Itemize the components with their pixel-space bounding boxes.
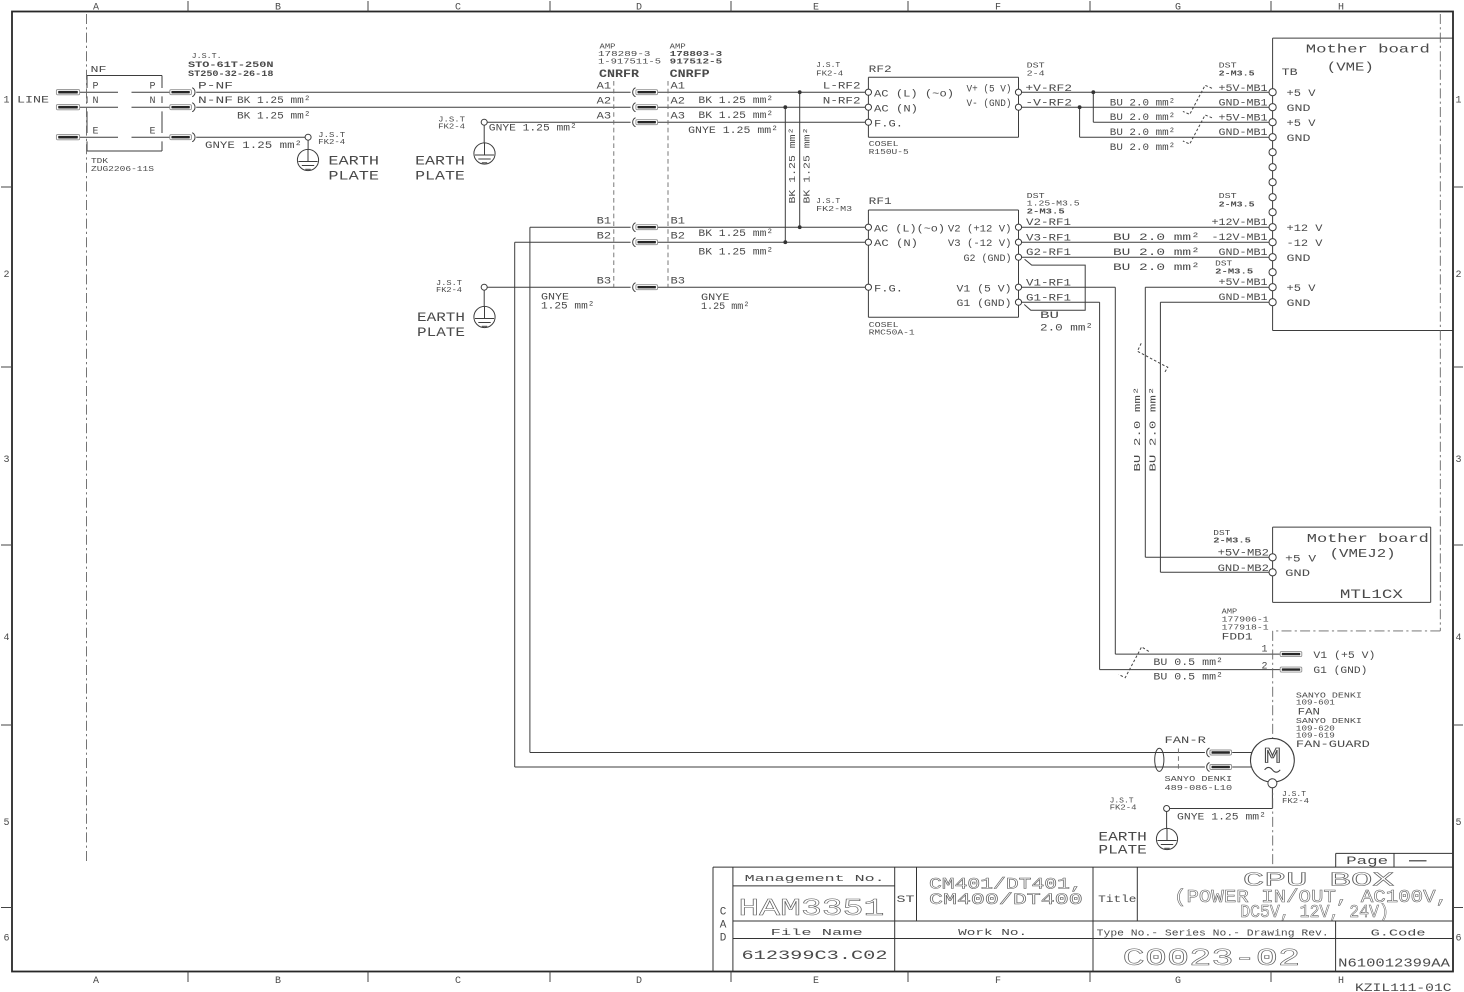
svg-text:2-M3.5: 2-M3.5 — [1215, 268, 1254, 276]
svg-text:C: C — [455, 976, 461, 987]
svg-text:B2: B2 — [597, 231, 612, 242]
svg-text:4: 4 — [3, 633, 9, 644]
svg-text:BU 2.0 mm²: BU 2.0 mm² — [1110, 113, 1175, 124]
svg-text:F: F — [995, 2, 1001, 13]
svg-text:P: P — [93, 81, 99, 92]
svg-text:5: 5 — [1455, 818, 1461, 829]
svg-text:GND-MB1: GND-MB1 — [1219, 293, 1268, 304]
svg-text:J.S.T: J.S.T — [816, 62, 840, 70]
svg-text:BK 1.25 mm²: BK 1.25 mm² — [237, 96, 311, 107]
svg-text:AC (N): AC (N) — [874, 238, 918, 250]
svg-text:612399C3.C02: 612399C3.C02 — [742, 949, 888, 963]
svg-text:BK 1.25 mm²: BK 1.25 mm² — [698, 247, 773, 258]
svg-text:P-NF: P-NF — [198, 81, 233, 92]
svg-text:AC (L)(~o): AC (L)(~o) — [874, 223, 945, 235]
svg-text:917512-5: 917512-5 — [670, 59, 723, 67]
svg-text:N610012399AA: N610012399AA — [1338, 957, 1451, 971]
svg-text:N: N — [93, 96, 99, 107]
svg-text:2-4: 2-4 — [1027, 70, 1046, 78]
svg-text:3: 3 — [1455, 455, 1461, 466]
svg-text:2-M3.5: 2-M3.5 — [1219, 201, 1256, 209]
svg-text:DST: DST — [1219, 193, 1238, 201]
svg-text:B3: B3 — [671, 276, 686, 287]
svg-text:F: F — [995, 976, 1001, 987]
svg-text:G.Code: G.Code — [1371, 928, 1426, 939]
svg-text:BU 2.0 mm²: BU 2.0 mm² — [1110, 128, 1175, 139]
svg-text:CNRFR: CNRFR — [599, 69, 639, 81]
svg-text:BU 2.0 mm²: BU 2.0 mm² — [1113, 233, 1200, 244]
svg-text:N-RF2: N-RF2 — [823, 96, 861, 107]
svg-text:2: 2 — [3, 270, 9, 281]
svg-text:Title: Title — [1098, 894, 1136, 906]
svg-text:2: 2 — [1455, 270, 1461, 281]
svg-text:A3: A3 — [671, 111, 686, 122]
svg-text:+5V-MB1: +5V-MB1 — [1219, 113, 1268, 124]
svg-text:1: 1 — [3, 96, 9, 107]
svg-text:BU 0.5 mm²: BU 0.5 mm² — [1153, 658, 1223, 669]
svg-text:PLATE: PLATE — [1098, 843, 1147, 857]
svg-text:GND-MB1: GND-MB1 — [1219, 248, 1268, 259]
svg-text:AMP: AMP — [1222, 608, 1238, 616]
svg-text:BU 2.0 mm²: BU 2.0 mm² — [1110, 98, 1175, 109]
svg-text:D: D — [636, 2, 642, 13]
svg-text:F.G.: F.G. — [874, 119, 903, 130]
svg-text:E: E — [93, 126, 99, 137]
svg-text:BU 2.0 mm²: BU 2.0 mm² — [1113, 248, 1200, 259]
svg-text:G: G — [1175, 2, 1181, 13]
svg-text:489-086-L10: 489-086-L10 — [1165, 785, 1233, 793]
svg-text:FK2-4: FK2-4 — [318, 139, 345, 147]
svg-text:L-RF2: L-RF2 — [823, 82, 861, 93]
svg-text:EARTH: EARTH — [417, 311, 465, 325]
svg-text:BK 1.25 mm²: BK 1.25 mm² — [698, 111, 773, 122]
svg-text:Management No.: Management No. — [745, 874, 885, 884]
svg-text:BK 1.25 mm²: BK 1.25 mm² — [698, 96, 773, 107]
svg-text:A: A — [93, 2, 99, 13]
svg-text:1-917511-5: 1-917511-5 — [598, 59, 662, 67]
svg-text:G2 (GND): G2 (GND) — [964, 253, 1012, 265]
svg-text:1: 1 — [1261, 644, 1267, 655]
svg-text:BK 1.25 mm²: BK 1.25 mm² — [787, 128, 798, 204]
svg-text:NF: NF — [91, 64, 107, 75]
svg-text:C: C — [720, 907, 727, 919]
svg-text:B3: B3 — [597, 276, 612, 287]
svg-text:COSEL: COSEL — [869, 141, 900, 149]
svg-text:G: G — [1175, 976, 1181, 987]
svg-text:PLATE: PLATE — [417, 326, 465, 340]
svg-text:Mother board: Mother board — [1307, 532, 1429, 546]
svg-text:+12 V: +12 V — [1287, 224, 1323, 235]
svg-text:B2: B2 — [671, 231, 686, 242]
svg-text:V3-RF1: V3-RF1 — [1026, 233, 1071, 244]
svg-text:E: E — [150, 126, 156, 137]
svg-text:2: 2 — [1261, 661, 1267, 672]
svg-text:DST: DST — [1219, 63, 1238, 71]
svg-text:GND-MB1: GND-MB1 — [1219, 99, 1268, 110]
svg-text:ST: ST — [897, 895, 915, 906]
svg-text:ZUG2206-11S: ZUG2206-11S — [91, 166, 155, 174]
svg-text:LINE: LINE — [17, 96, 49, 107]
svg-text:Page: Page — [1346, 856, 1388, 868]
svg-text:V2-RF1: V2-RF1 — [1026, 218, 1071, 229]
svg-text:2.0 mm²: 2.0 mm² — [1040, 324, 1093, 335]
svg-text:+5 V: +5 V — [1285, 554, 1316, 565]
svg-text:FK2-4: FK2-4 — [1110, 804, 1137, 812]
svg-text:RF1: RF1 — [869, 197, 892, 208]
svg-text:RF2: RF2 — [869, 65, 892, 76]
svg-text:KZIL111-01C: KZIL111-01C — [1355, 983, 1452, 992]
svg-text:CNRFP: CNRFP — [670, 69, 710, 81]
svg-text:TDK: TDK — [91, 158, 109, 166]
svg-text:GND: GND — [1287, 299, 1311, 310]
svg-text:BU 0.5 mm²: BU 0.5 mm² — [1153, 672, 1223, 683]
svg-text:CM400/DT400: CM400/DT400 — [929, 891, 1083, 909]
svg-text:B1: B1 — [597, 216, 612, 227]
svg-text:DST: DST — [1215, 260, 1233, 268]
svg-text:+5 V: +5 V — [1287, 119, 1316, 130]
svg-text:V3 (-12 V): V3 (-12 V) — [948, 238, 1012, 250]
svg-text:C0023-02: C0023-02 — [1123, 946, 1301, 973]
svg-text:E: E — [813, 976, 819, 987]
svg-text:B: B — [275, 2, 281, 13]
svg-text:+5V-MB1: +5V-MB1 — [1219, 84, 1268, 95]
svg-text:-12 V: -12 V — [1287, 239, 1323, 250]
svg-text:+V-RF2: +V-RF2 — [1025, 84, 1072, 95]
svg-text:FDD1: FDD1 — [1222, 632, 1253, 644]
svg-text:R150U-5: R150U-5 — [869, 149, 910, 157]
svg-text:A2: A2 — [671, 96, 686, 107]
svg-text:B1: B1 — [671, 216, 686, 227]
svg-text:2-M3.5: 2-M3.5 — [1219, 70, 1256, 78]
svg-text:AC (N): AC (N) — [874, 103, 918, 115]
svg-text:6: 6 — [3, 934, 9, 945]
svg-text:SANYO DENKI: SANYO DENKI — [1165, 776, 1233, 784]
svg-text:V1-RF1: V1-RF1 — [1026, 278, 1071, 289]
svg-text:PLATE: PLATE — [328, 169, 379, 183]
svg-text:5: 5 — [3, 818, 9, 829]
svg-text:ST250-32-26-18: ST250-32-26-18 — [188, 69, 274, 79]
svg-text:FK2-4: FK2-4 — [816, 70, 843, 78]
svg-text:1.25 mm²: 1.25 mm² — [701, 302, 749, 313]
svg-text:V1 (5 V): V1 (5 V) — [957, 283, 1012, 295]
svg-text:G2-RF1: G2-RF1 — [1026, 248, 1071, 259]
svg-text:H: H — [1338, 976, 1344, 987]
svg-text:Type No.- Series No.- Drawing: Type No.- Series No.- Drawing Rev. — [1097, 928, 1329, 939]
svg-text:2-M3.5: 2-M3.5 — [1027, 209, 1066, 217]
svg-text:GNYE 1.25 mm²: GNYE 1.25 mm² — [1177, 813, 1266, 824]
svg-text:V- (GND): V- (GND) — [967, 98, 1012, 110]
svg-text:A3: A3 — [597, 111, 612, 122]
svg-text:M: M — [1264, 745, 1282, 770]
svg-text:6: 6 — [1455, 934, 1461, 945]
svg-text:RMC50A-1: RMC50A-1 — [869, 330, 916, 338]
svg-text:GNYE 1.25 mm²: GNYE 1.25 mm² — [688, 126, 778, 137]
svg-text:FAN-GUARD: FAN-GUARD — [1296, 740, 1370, 751]
svg-text:+5 V: +5 V — [1287, 284, 1316, 295]
svg-text:109-601: 109-601 — [1296, 699, 1336, 707]
svg-text:+12V-MB1: +12V-MB1 — [1212, 218, 1268, 229]
svg-text:MTL1CX: MTL1CX — [1340, 587, 1403, 602]
svg-text:177906-1: 177906-1 — [1222, 616, 1270, 624]
svg-text:V1 (+5 V): V1 (+5 V) — [1313, 650, 1375, 662]
svg-text:BU 2.0 mm²: BU 2.0 mm² — [1147, 387, 1158, 472]
svg-text:G1 (GND): G1 (GND) — [957, 298, 1012, 310]
svg-text:FAN-R: FAN-R — [1165, 736, 1206, 747]
svg-text:4: 4 — [1455, 633, 1461, 644]
svg-text:1: 1 — [1455, 96, 1461, 107]
svg-text:File Name: File Name — [771, 928, 863, 938]
svg-text:Work No.: Work No. — [958, 928, 1027, 938]
svg-text:BK 1.25 mm²: BK 1.25 mm² — [801, 128, 812, 204]
svg-text:FK2-4: FK2-4 — [438, 124, 465, 132]
svg-text:-V-RF2: -V-RF2 — [1025, 99, 1072, 110]
svg-text:GND: GND — [1287, 134, 1311, 145]
svg-text:N-NF: N-NF — [198, 96, 233, 107]
svg-text:FK2-4: FK2-4 — [1282, 798, 1309, 806]
svg-text:EARTH: EARTH — [328, 155, 379, 169]
svg-text:BU: BU — [1040, 311, 1059, 322]
svg-text:BU 2.0 mm²: BU 2.0 mm² — [1132, 387, 1143, 472]
svg-text:Mother board: Mother board — [1306, 43, 1430, 57]
svg-text:BU 2.0 mm²: BU 2.0 mm² — [1113, 263, 1200, 274]
svg-text:DC5V, 12V, 24V): DC5V, 12V, 24V) — [1240, 903, 1389, 923]
svg-text:HAM3351: HAM3351 — [738, 896, 884, 923]
svg-text:A1: A1 — [597, 81, 612, 92]
svg-text:A2: A2 — [597, 96, 612, 107]
svg-text:D: D — [720, 933, 727, 945]
svg-text:G1 (GND): G1 (GND) — [1313, 665, 1367, 677]
svg-text:A1: A1 — [671, 81, 686, 92]
svg-text:3: 3 — [3, 455, 9, 466]
svg-text:GND-MB2: GND-MB2 — [1218, 564, 1269, 575]
svg-text:+5 V: +5 V — [1287, 89, 1316, 100]
svg-text:E: E — [813, 2, 819, 13]
svg-text:DST: DST — [1027, 63, 1046, 71]
svg-text:F.G.: F.G. — [874, 284, 903, 295]
svg-text:B: B — [275, 976, 281, 987]
svg-text:EARTH: EARTH — [415, 155, 465, 169]
svg-text:BU 2.0 mm²: BU 2.0 mm² — [1110, 143, 1175, 154]
svg-text:BK 1.25 mm²: BK 1.25 mm² — [698, 229, 773, 240]
svg-text:(VMEJ2): (VMEJ2) — [1330, 547, 1396, 561]
svg-text:V+ (5 V): V+ (5 V) — [967, 84, 1012, 96]
svg-text:FK2-M3: FK2-M3 — [816, 206, 852, 214]
svg-text:A: A — [93, 976, 99, 987]
svg-text:C: C — [455, 2, 461, 13]
svg-text:BK 1.25 mm²: BK 1.25 mm² — [237, 111, 311, 122]
svg-text:P: P — [150, 81, 156, 92]
svg-text:+5V-MB1: +5V-MB1 — [1219, 278, 1268, 289]
svg-text:EARTH: EARTH — [1098, 830, 1147, 844]
svg-text:GND: GND — [1287, 104, 1311, 115]
svg-text:GNYE 1.25 mm²: GNYE 1.25 mm² — [489, 124, 577, 135]
svg-text:FAN: FAN — [1298, 707, 1320, 718]
svg-text:-12V-MB1: -12V-MB1 — [1212, 233, 1268, 244]
svg-text:GNYE 1.25 mm²: GNYE 1.25 mm² — [205, 141, 302, 152]
svg-text:GND: GND — [1287, 254, 1311, 265]
svg-text:D: D — [636, 976, 642, 987]
svg-text:1.25-M3.5: 1.25-M3.5 — [1027, 201, 1081, 209]
svg-text:GND: GND — [1285, 569, 1310, 580]
svg-text:V2 (+12 V): V2 (+12 V) — [948, 223, 1012, 235]
svg-text:H: H — [1338, 2, 1344, 13]
svg-text:(VME): (VME) — [1327, 60, 1374, 74]
svg-text:FK2-4: FK2-4 — [436, 287, 462, 295]
svg-text:PLATE: PLATE — [415, 169, 465, 183]
svg-text:A: A — [720, 920, 727, 932]
svg-text:AC (L) (~o): AC (L) (~o) — [874, 88, 954, 100]
svg-text:G1-RF1: G1-RF1 — [1026, 294, 1071, 305]
svg-text:J.S.T: J.S.T — [816, 198, 840, 206]
svg-text:GND-MB1: GND-MB1 — [1219, 128, 1268, 139]
svg-text:+5V-MB2: +5V-MB2 — [1218, 549, 1269, 560]
svg-text:TB: TB — [1282, 68, 1298, 79]
svg-text:2-M3.5: 2-M3.5 — [1213, 537, 1251, 545]
svg-text:1.25 mm²: 1.25 mm² — [541, 302, 595, 313]
svg-text:N: N — [150, 96, 156, 107]
